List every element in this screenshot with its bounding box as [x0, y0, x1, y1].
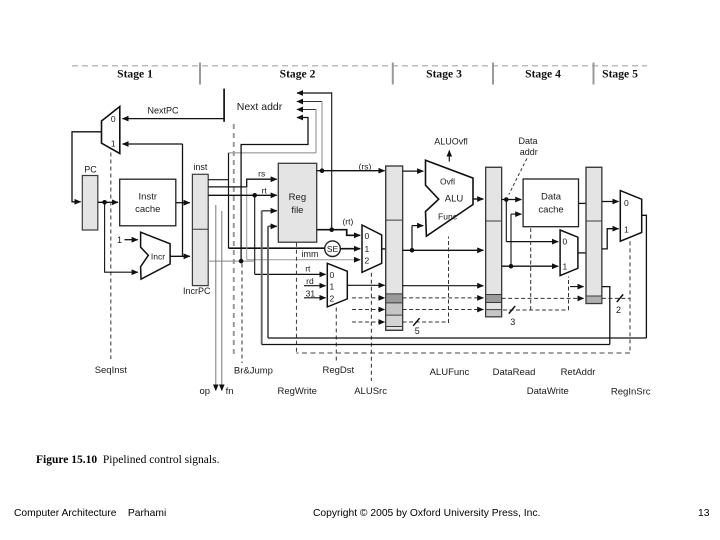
mux cache bypass (0/1): [560, 230, 578, 276]
junction node on PC output: [102, 200, 107, 205]
svg-text:Next addr: Next addr: [237, 101, 283, 113]
wire Instr cache to inst register: [176, 202, 190, 204]
svg-text:ALUOvfl: ALUOvfl: [434, 137, 468, 147]
wire rs branch down to ALUSrc mux input 2: [247, 187, 361, 260]
wire reg2 rt/imm row to reg3: [403, 249, 484, 251]
dashed control reg4 out with width 2: [602, 294, 630, 315]
mux ALUSrc (0/1/2): [362, 225, 382, 272]
wire ALUSrc mux output to reg2: [382, 248, 386, 250]
svg-text:addr: addr: [520, 147, 538, 157]
stage tick 3/4: [492, 63, 494, 85]
svg-text:2: 2: [330, 293, 335, 303]
dashed control row reg2 to reg3 a: [403, 297, 484, 299]
wire inst field to Next addr: [241, 117, 308, 261]
wire ALU result bypass to mux input 0: [506, 200, 558, 242]
svg-text:PC: PC: [84, 164, 97, 174]
wire (rt) output to ALUSrc mux input 0: [317, 217, 361, 236]
wire rs field to Reg file: [208, 168, 277, 187]
svg-text:NextPC: NextPC: [147, 106, 179, 116]
Instr cache: [120, 179, 176, 226]
svg-text:2: 2: [616, 305, 621, 315]
svg-text:inst: inst: [193, 162, 208, 172]
junction node data address: [504, 197, 509, 202]
wire reg2 to ALU input 1: [403, 170, 424, 172]
ALU: [426, 160, 474, 236]
stage tick 1/2: [199, 63, 201, 85]
dashed control row reg3 to reg4: [502, 297, 584, 299]
svg-text:Instr: Instr: [139, 192, 157, 203]
pipeline register 3: [486, 167, 502, 317]
svg-text:cache: cache: [135, 204, 160, 215]
svg-text:cache: cache: [538, 204, 563, 215]
junction node rt field: [252, 193, 257, 198]
wire ALUOvfl flag up: [434, 137, 468, 162]
svg-text:31: 31: [306, 288, 316, 298]
dashed control row reg2 to reg3 b: [403, 309, 484, 311]
wire SE to ALUSrc mux input 1: [340, 248, 360, 250]
dashed control up into Data cache: [530, 228, 532, 310]
svg-text:0: 0: [365, 231, 370, 241]
svg-text:Stage 4: Stage 4: [525, 68, 561, 81]
svg-text:ALU: ALU: [445, 194, 464, 205]
wire destination reg row reg2 to reg3: [403, 285, 484, 287]
dashed control up into cache mux: [568, 277, 570, 311]
wire store data up into Data cache: [511, 214, 521, 266]
wire NextPC into M1 input 0: [123, 106, 225, 119]
svg-text:Data: Data: [541, 192, 562, 203]
svg-text:1: 1: [117, 235, 122, 245]
wire write data return bus: [268, 337, 646, 339]
dashed control stub into reg2 row 2: [352, 309, 385, 311]
svg-text:RegDst: RegDst: [322, 365, 354, 376]
dashed control line SeqInst: [110, 153, 112, 360]
svg-text:RegInSrc: RegInSrc: [611, 387, 651, 398]
svg-text:file: file: [291, 205, 303, 216]
svg-text:Stage 5: Stage 5: [602, 68, 638, 81]
stage tick 2/3: [392, 63, 394, 85]
wire rs value to Next addr: [297, 101, 322, 171]
wire ALU output to reg3: [473, 198, 483, 200]
svg-text:0: 0: [330, 270, 335, 280]
junction node store data: [509, 264, 514, 269]
wire Data cache output to reg4: [579, 202, 586, 204]
wire constant 31 into RegDst mux input 2: [304, 288, 326, 298]
svg-text:Ovfl: Ovfl: [440, 177, 455, 187]
svg-text:op: op: [200, 386, 211, 397]
svg-text:5: 5: [415, 326, 420, 336]
Data cache: [523, 179, 578, 227]
footer left: [14, 508, 166, 519]
wire destination stub into reg4: [570, 286, 584, 288]
footer center: [313, 508, 540, 519]
wire rt field down to RegDst mux input 0: [255, 195, 326, 274]
wire cache mux output to reg4: [578, 252, 586, 254]
svg-text:Incr: Incr: [151, 252, 165, 262]
svg-text:SeqInst: SeqInst: [95, 365, 128, 376]
svg-text:rd: rd: [306, 276, 314, 286]
svg-text:DataWrite: DataWrite: [527, 386, 569, 397]
dashed control return bus: [297, 352, 631, 354]
svg-text:0: 0: [563, 237, 568, 247]
sign extender SE: [325, 241, 341, 257]
svg-text:imm: imm: [302, 249, 319, 259]
svg-text:0: 0: [111, 114, 116, 124]
svg-text:(rs): (rs): [359, 161, 372, 171]
wire write data bus up into Reg file: [262, 211, 277, 345]
wire reg3 rt data to mux input 1: [502, 265, 559, 267]
svg-text:RegWrite: RegWrite: [277, 386, 316, 397]
pipeline register 4: [586, 167, 602, 303]
wire final mux output down to write data bus: [642, 215, 647, 338]
mux RegDst (rt/rd/31): [327, 263, 347, 307]
svg-text:1: 1: [111, 139, 116, 149]
label Data addr with leader: [509, 136, 538, 194]
stage tick 4/5: [593, 63, 595, 85]
svg-text:RetAddr: RetAddr: [561, 367, 596, 378]
svg-text:1: 1: [563, 261, 568, 271]
Next addr block: [224, 89, 283, 122]
svg-text:(rt): (rt): [342, 217, 353, 227]
svg-text:IncrPC: IncrPC: [183, 286, 211, 296]
wire branch up into ALU input 2: [412, 226, 423, 251]
Reg file: [278, 163, 316, 242]
svg-text:1: 1: [365, 244, 370, 254]
constant 1 into Incr: [117, 235, 138, 245]
junction node rt to next addr: [329, 227, 334, 232]
dashed control line Br&Jump: [241, 264, 243, 364]
pipeline register 2: [386, 166, 403, 330]
svg-text:Func: Func: [438, 212, 458, 222]
svg-text:Data: Data: [518, 136, 537, 146]
svg-text:1: 1: [624, 224, 629, 234]
svg-text:fn: fn: [226, 386, 234, 397]
dashed control line RegWrite: [296, 243, 298, 353]
svg-text:rt: rt: [262, 185, 268, 195]
footer right: [698, 508, 709, 519]
mux RegInSrc (0/1): [620, 191, 641, 242]
svg-text:1: 1: [330, 282, 335, 292]
dashed control line ALUSrc: [370, 273, 372, 381]
incrementer Incr: [141, 232, 171, 279]
wire IncrPC to M1 input 1: [123, 144, 183, 256]
register PC: [82, 164, 98, 230]
mux M1 (PC source mux): [102, 107, 120, 154]
junction node branch to Next addr: [239, 259, 244, 264]
svg-text:SE: SE: [327, 244, 339, 254]
svg-text:0: 0: [624, 198, 629, 208]
svg-text:DataRead: DataRead: [493, 367, 536, 378]
wire destination reg down to write address bus: [602, 287, 610, 345]
svg-text:rs: rs: [258, 168, 265, 178]
wire reg4 to final mux input 0: [602, 201, 619, 203]
wire reg4 to final mux input 1: [602, 229, 619, 249]
wire PC to Instr cache: [98, 201, 118, 203]
wire (rs) output to reg2: [317, 161, 385, 171]
pipeline register inst / IncrPC: [183, 162, 211, 296]
figure caption: [36, 454, 219, 466]
dashed control row with width 3: [503, 306, 569, 327]
svg-text:3: 3: [510, 317, 515, 327]
wire PC node down into Incr: [105, 202, 138, 272]
wire rd field into RegDst mux input 1: [304, 276, 326, 286]
junction node rs to next addr: [320, 168, 325, 173]
wire rt value to Next addr: [297, 92, 332, 229]
svg-text:ALUSrc: ALUSrc: [354, 386, 387, 397]
svg-text:Stage 1: Stage 1: [117, 68, 153, 81]
dashed control ALUFunc with width 5: [403, 237, 449, 337]
dashed control line RegDst: [335, 308, 337, 363]
stage 1/2 boundary dashed line: [233, 124, 235, 358]
svg-text:rt: rt: [305, 264, 311, 274]
wire rt field to Reg file: [208, 185, 277, 195]
wire M1 output to PC: [72, 132, 102, 202]
svg-text:Br&Jump: Br&Jump: [234, 366, 273, 377]
svg-text:Stage 2: Stage 2: [280, 68, 316, 81]
junction node ALU operand 2: [410, 248, 415, 253]
wire op field down: [215, 205, 217, 391]
svg-text:2: 2: [365, 255, 370, 265]
svg-text:Reg: Reg: [289, 192, 306, 203]
svg-text:Stage 3: Stage 3: [426, 68, 462, 81]
wire write address bus up into Reg file: [268, 226, 277, 338]
wire fn field down: [221, 211, 223, 391]
wire imm to Next addr: [229, 109, 317, 153]
svg-text:ALUFunc: ALUFunc: [430, 367, 470, 378]
dashed control line RegInSrc: [629, 241, 631, 353]
wire low inst field row: [208, 260, 255, 262]
wire RegDst mux output to reg2: [347, 284, 384, 286]
wire write address return bus: [262, 344, 610, 346]
wire reg3 to Data cache address: [502, 199, 522, 201]
wire imm field from inst register to SE: [208, 153, 325, 259]
wire Incr output to inst register (IncrPC): [170, 255, 190, 257]
stage boundary dashed header line: [72, 65, 647, 67]
dashed control stub into reg2 row 1: [352, 297, 385, 299]
dashed control stub into reg2 row 3: [352, 321, 385, 323]
